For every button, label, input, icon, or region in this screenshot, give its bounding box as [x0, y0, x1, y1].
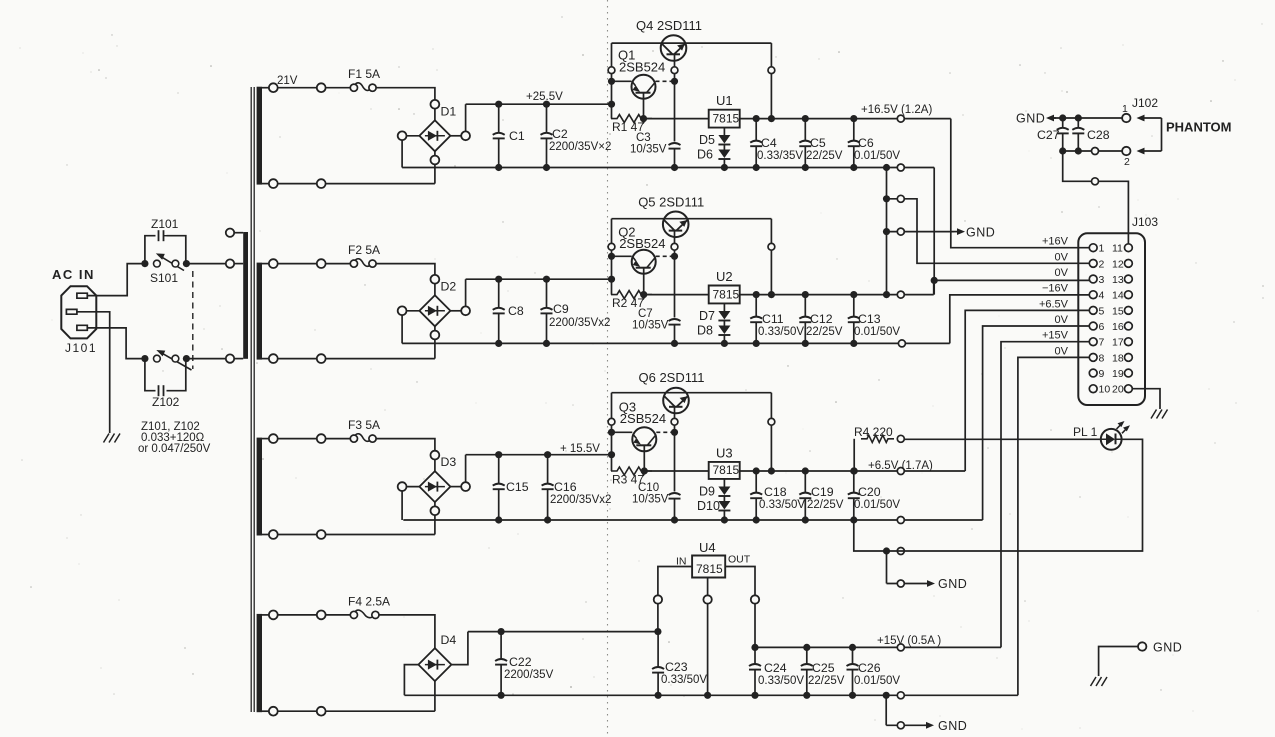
- Q6 base lead: [674, 406, 676, 432]
- wire bridge D4 AC bottom: [434, 681, 436, 711]
- J103 pin 7: [1089, 338, 1097, 346]
- channel4 ground rail: [404, 694, 1018, 696]
- svg-text:C28: C28: [1087, 128, 1110, 142]
- wire left to Q2: [612, 255, 632, 257]
- switch S101 upper pole right contact: [172, 260, 179, 267]
- junction diode ground ch1: [721, 164, 728, 171]
- transformer primary winding: [243, 232, 248, 359]
- capacitor C12: [804, 295, 806, 317]
- J103 pin 8: [1089, 353, 1097, 361]
- svg-text:U2: U2: [716, 269, 733, 284]
- svg-text:10: 10: [1099, 384, 1111, 396]
- capacitor C19: [804, 471, 806, 493]
- transformer primary tap terminal: [226, 229, 234, 237]
- terminal circle Q5 base: [671, 243, 678, 250]
- capacitor C3: [669, 148, 681, 150]
- wire D8 to ground rail: [723, 335, 725, 343]
- regulator U1 box: [709, 110, 740, 128]
- wire fuse F3 to bridge: [376, 439, 435, 456]
- wire R4 to PL1: [905, 438, 1101, 440]
- ch4 ground branch vertical: [885, 695, 887, 725]
- capacitor C25: [806, 647, 808, 664]
- ground at J103 pin20: [1151, 410, 1168, 419]
- wire ch3 ground to pin6: [983, 326, 1089, 520]
- terminal circles secondary top w2: [269, 259, 278, 268]
- svg-text:9: 9: [1099, 368, 1105, 380]
- wire J102 to J103 pin11: [1063, 151, 1129, 244]
- svg-text:7815: 7815: [713, 287, 740, 301]
- wire bridge D1 AC bottom: [434, 151, 436, 183]
- svg-text:C7: C7: [638, 308, 653, 320]
- wire rail to regulator U2: [646, 294, 709, 296]
- Q1 base lead down: [643, 93, 645, 119]
- svg-text:J102: J102: [1132, 96, 1158, 110]
- junction Q2 emitter node: [608, 253, 615, 260]
- svg-text:C10: C10: [638, 482, 659, 494]
- svg-text:D8: D8: [697, 324, 713, 338]
- svg-text:D5: D5: [699, 133, 715, 147]
- svg-text:2200/35V: 2200/35V: [504, 669, 554, 681]
- svg-text:Q6 2SD111: Q6 2SD111: [639, 370, 705, 385]
- svg-text:10/35V: 10/35V: [630, 144, 667, 156]
- svg-text:7815: 7815: [713, 463, 740, 477]
- svg-text:AC IN: AC IN: [52, 267, 95, 282]
- capacitor C5: [804, 119, 806, 141]
- wire fuse F4 to bridge: [379, 615, 435, 648]
- svg-text:U1: U1: [716, 93, 733, 108]
- right vertical Q4 emitter to output: [770, 43, 772, 119]
- 0V row GND arrow ch4: [886, 724, 924, 726]
- transistor Q1 (2SB524): [632, 75, 656, 99]
- terminal ch4 ground: [897, 692, 904, 699]
- right vertical Q5 emitter to output: [770, 219, 772, 295]
- J101 pin 1: [77, 293, 87, 298]
- svg-text:J101: J101: [65, 341, 97, 355]
- terminal PL1 return row: [897, 548, 904, 555]
- wire rail to regulator U3: [646, 470, 709, 472]
- svg-text:S101: S101: [150, 271, 178, 285]
- junction PL1 return: [883, 547, 890, 554]
- svg-text:17: 17: [1112, 337, 1124, 349]
- wire between diodes: [723, 496, 725, 501]
- fuse F4: [350, 611, 357, 618]
- wire +16.5V to J103 pin1: [951, 119, 1089, 248]
- J103 pin 6: [1089, 322, 1097, 330]
- capacitor C18: [755, 471, 757, 493]
- svg-text:C23: C23: [665, 660, 688, 674]
- junction Q3 emitter node: [608, 429, 615, 436]
- svg-text:2SB524: 2SB524: [620, 411, 666, 426]
- terminal +6.5V output: [897, 468, 904, 475]
- junction R2 right / base: [640, 291, 647, 298]
- svg-text:2200/35Vx2: 2200/35Vx2: [550, 494, 611, 506]
- ground at GND terminal: [1091, 677, 1108, 686]
- svg-text:U3: U3: [716, 445, 733, 460]
- svg-text:or 0.047/250V: or 0.047/250V: [138, 443, 211, 455]
- resistor R4: [853, 439, 855, 471]
- terminal ch3 ground: [897, 517, 904, 524]
- Q5 base lead: [674, 230, 676, 256]
- junction Q5 base node: [671, 253, 678, 260]
- svg-text:D7: D7: [699, 309, 715, 323]
- svg-text:+15V: +15V: [1042, 330, 1069, 342]
- J102 top row wire: [1049, 117, 1127, 119]
- ground at J101: [104, 434, 121, 443]
- svg-text:Z102: Z102: [152, 395, 180, 409]
- wire left to Q1: [612, 80, 632, 82]
- capacitor C24: [754, 647, 756, 664]
- svg-text:C15: C15: [506, 480, 529, 494]
- terminal ch2 0V: [897, 291, 904, 298]
- junction R3 right / base: [641, 467, 648, 474]
- wire U4 input: [658, 567, 692, 632]
- svg-text:0.01/50V: 0.01/50V: [854, 675, 900, 687]
- J103 pin 4: [1089, 291, 1097, 299]
- svg-text:F3 5A: F3 5A: [348, 418, 380, 432]
- dashed wire Q1 to Q4 base: [656, 80, 675, 82]
- svg-text:2200/35Vx2: 2200/35Vx2: [549, 317, 610, 329]
- svg-text:0V: 0V: [1055, 251, 1069, 263]
- diode D7: [718, 311, 730, 320]
- J101 pin 3: [77, 325, 87, 330]
- svg-text:C1: C1: [509, 129, 525, 143]
- terminal circle Q4 base: [671, 67, 678, 74]
- right vertical Q6 emitter to output: [770, 393, 772, 471]
- terminal R4 output: [897, 435, 904, 442]
- svg-text:0V: 0V: [1055, 345, 1069, 357]
- resistor R1: [611, 115, 652, 123]
- svg-text:C18: C18: [764, 485, 787, 499]
- svg-text:0.33/35V: 0.33/35V: [757, 150, 803, 162]
- diode D9: [718, 487, 730, 496]
- junction ch1 ground branch: [883, 164, 890, 171]
- wire collector rail Q6: [612, 392, 772, 394]
- wire collector rail Q4: [612, 42, 772, 44]
- svg-text:2200/35V×2: 2200/35V×2: [549, 141, 611, 153]
- svg-text:6: 6: [1099, 321, 1105, 333]
- channel3 plus rail +15.5V: [466, 454, 612, 456]
- transformer secondary winding W2: [257, 263, 262, 360]
- junction ch4 ground branch: [883, 692, 890, 699]
- resistor R3: [611, 467, 652, 475]
- svg-text:22/25V: 22/25V: [806, 326, 843, 338]
- svg-text:0.01/50V: 0.01/50V: [854, 150, 900, 162]
- wire Q5 base to capacitor: [674, 256, 676, 317]
- junction +rail tie ch1: [608, 101, 615, 108]
- svg-text:10/35V: 10/35V: [632, 320, 669, 332]
- terminal +16.5V output: [897, 115, 904, 122]
- wire +6.5V to J103 pin5: [965, 310, 1089, 471]
- J103 pin 9: [1089, 369, 1097, 377]
- svg-text:18: 18: [1112, 352, 1124, 364]
- svg-text:7815: 7815: [696, 562, 723, 576]
- svg-text:22/25V: 22/25V: [808, 675, 845, 687]
- terminal circle left ch3: [608, 418, 615, 425]
- fuse F1: [350, 84, 357, 91]
- svg-text:3: 3: [1099, 274, 1105, 286]
- channel4 plus rail: [468, 631, 658, 633]
- PHANTOM bracket: [1161, 118, 1163, 151]
- PL1 light arrows: [1117, 423, 1123, 429]
- transistor Q3 (2SB524): [632, 427, 656, 451]
- transformer primary top terminal: [226, 259, 234, 267]
- svg-text:+ 15.5V: + 15.5V: [560, 443, 600, 455]
- svg-text:0.33/50V: 0.33/50V: [758, 675, 804, 687]
- svg-text:2SB524: 2SB524: [619, 59, 665, 74]
- svg-text:C12: C12: [810, 312, 833, 326]
- switch S101 lower blade: [160, 352, 192, 370]
- capacitor C4: [755, 119, 757, 141]
- wire fuse F2 to bridge: [376, 264, 435, 280]
- svg-text:D6: D6: [697, 148, 713, 162]
- junction diode ground ch2: [721, 340, 728, 347]
- wire U2 ground pin: [723, 303, 725, 311]
- wire +15V to J103 pin7: [1001, 342, 1089, 648]
- capacitor C20: [853, 471, 855, 493]
- wire bridge D1 minus to ground rail: [402, 135, 419, 137]
- terminal ch1 ground: [897, 164, 904, 171]
- capacitor C23: [657, 632, 659, 668]
- wire bridge D2 minus to ground rail: [402, 310, 419, 312]
- bridge rectifier D3: [419, 471, 450, 502]
- junction C7 ground: [671, 340, 678, 347]
- wire bridge D3 minus to ground rail: [402, 486, 419, 488]
- wire winding bottom w4: [269, 710, 435, 712]
- J102 bottom row wire: [1063, 150, 1127, 152]
- wire J101 pin1 to S101 upper pole: [87, 264, 145, 296]
- bridge rectifier D1: [419, 120, 450, 151]
- bridge D2 terminals: [431, 275, 440, 284]
- svg-text:1: 1: [1099, 243, 1105, 255]
- svg-text:+16V: +16V: [1042, 236, 1069, 248]
- wire collector rail Q5: [612, 218, 772, 220]
- svg-text:7: 7: [1099, 337, 1105, 349]
- capacitor C1: [498, 104, 500, 133]
- wire left to Q3: [612, 431, 633, 433]
- +25.5V rail: [466, 103, 612, 105]
- svg-text:7815: 7815: [713, 112, 740, 126]
- svg-text:C6: C6: [858, 136, 874, 150]
- svg-text:12: 12: [1112, 258, 1124, 270]
- left vertical wire (emitter feed) ch3: [611, 393, 613, 471]
- svg-text:GND: GND: [1016, 112, 1045, 126]
- svg-text:D1: D1: [441, 104, 457, 118]
- left vertical wire (emitter feed) ch2: [611, 219, 613, 295]
- Q3 base lead down: [643, 445, 645, 471]
- switch S101 upper blade: [159, 255, 184, 270]
- capacitor C2: [546, 104, 548, 133]
- capacitor C10: [669, 498, 681, 500]
- wire ch2 0V rail up to pin3 node: [933, 280, 935, 294]
- svg-text:C25: C25: [812, 661, 835, 675]
- svg-text:D2: D2: [441, 279, 457, 293]
- bridge rectifier D2: [419, 295, 450, 326]
- svg-text:D9: D9: [699, 485, 715, 499]
- svg-text:0.01/50V: 0.01/50V: [854, 326, 900, 338]
- svg-text:C27: C27: [1037, 128, 1060, 142]
- svg-text:Z101: Z101: [151, 217, 179, 231]
- svg-text:4: 4: [1099, 290, 1105, 302]
- wire Q6 base to capacitor: [674, 432, 676, 491]
- svg-text:8: 8: [1099, 352, 1105, 364]
- switch S101 lower pole left contact: [141, 355, 148, 362]
- regulator U4 box: [692, 556, 725, 578]
- U1 output rail +16.5V: [740, 118, 951, 120]
- wire winding bottom w2: [269, 358, 435, 360]
- svg-text:1: 1: [1122, 103, 1128, 115]
- junction ch2 0V tie: [883, 291, 890, 298]
- fuse F2: [350, 260, 357, 267]
- 0V row to pin2: [883, 195, 890, 202]
- GND terminal bottom right: [1138, 642, 1146, 650]
- wire winding to fuse F2: [269, 263, 350, 265]
- junction R1 right / base: [640, 115, 647, 122]
- wire S101 lower to transformer primary: [186, 358, 230, 360]
- wire bridge D2 AC bottom: [434, 326, 436, 358]
- capacitor C13: [853, 295, 855, 317]
- GND arrow at J102: [1053, 117, 1056, 119]
- connector J102 pin 2: [1122, 147, 1130, 155]
- wire -16V to J103 pin4: [950, 295, 1089, 344]
- switch S101 upper pole left contact: [141, 260, 148, 267]
- svg-text:0V: 0V: [1055, 314, 1069, 326]
- svg-text:PHANTOM: PHANTOM: [1166, 120, 1231, 135]
- svg-text:C5: C5: [810, 136, 826, 150]
- junction Q4 base node: [671, 78, 678, 85]
- svg-text:C3: C3: [636, 132, 651, 144]
- svg-text:C20: C20: [858, 485, 881, 499]
- svg-text:D4: D4: [441, 633, 457, 647]
- wire U3 ground pin: [723, 479, 725, 487]
- diode D10: [718, 501, 730, 510]
- fuse F3: [350, 435, 357, 442]
- J103 pin 3: [1089, 275, 1097, 283]
- wire ch4 ground to pin8: [1018, 357, 1089, 695]
- switch S101 lower pole right contact: [172, 355, 179, 362]
- terminal circle left ch2: [608, 243, 615, 250]
- svg-text:OUT: OUT: [728, 554, 751, 566]
- wire winding to fuse F4: [269, 614, 350, 616]
- pin3 0V tap: [931, 277, 938, 284]
- channel3 ground rail: [403, 519, 982, 521]
- J103 pin 10: [1089, 385, 1097, 393]
- transistor Q2 (2SB524): [632, 250, 656, 274]
- Q4 base lead: [674, 54, 676, 82]
- junction C10 ground: [671, 516, 678, 523]
- svg-text:J103: J103: [1132, 215, 1158, 229]
- transistor Q5 (2SD111): [663, 212, 689, 238]
- regulator U3 box: [709, 462, 740, 479]
- svg-text:−16V: −16V: [1042, 283, 1069, 295]
- resistor R2: [611, 291, 652, 299]
- svg-text:C13: C13: [858, 312, 881, 326]
- svg-text:GND: GND: [966, 226, 995, 240]
- transformer secondary winding W3: [257, 438, 262, 536]
- bridge rectifier D4: [418, 648, 451, 681]
- U2 output rail 0V: [740, 294, 934, 296]
- 0V row GND arrow ch1: [883, 228, 890, 235]
- wire fuse F1 to bridge: [376, 88, 435, 105]
- wire ch1 ground to pin3 vertical: [933, 168, 935, 295]
- wire between diodes: [723, 321, 725, 326]
- terminal circle Q6 base: [671, 418, 678, 425]
- wire J101 pin2 to ground: [77, 312, 110, 433]
- svg-text:C4: C4: [761, 136, 777, 150]
- svg-text:2: 2: [1099, 258, 1105, 270]
- terminal +15V output: [897, 644, 904, 651]
- svg-text:21V: 21V: [277, 75, 298, 87]
- svg-text:22/25V: 22/25V: [807, 499, 844, 511]
- channel2 ground rail: [402, 342, 950, 344]
- capacitor C16: [547, 455, 549, 484]
- svg-text:C2: C2: [552, 127, 568, 141]
- wire bridge D2 plus to rail: [450, 310, 465, 312]
- fold crease line: [607, 0, 609, 737]
- junction +rail tie ch2: [608, 276, 615, 283]
- transformer secondary winding W1: [257, 87, 262, 185]
- wire winding bottom w3: [269, 534, 435, 536]
- junction C3 ground: [671, 164, 678, 171]
- terminal circles secondary top w1: [269, 83, 278, 92]
- wire winding bottom w1: [269, 183, 435, 185]
- svg-text:2SB524: 2SB524: [619, 236, 665, 251]
- left vertical wire (emitter feed) ch1: [611, 43, 613, 119]
- capacitor C15: [498, 455, 500, 484]
- diode D5: [718, 135, 730, 144]
- J103 pin 5: [1089, 306, 1097, 314]
- svg-text:2: 2: [1124, 156, 1130, 168]
- terminal circle left ch1: [608, 67, 615, 74]
- wire between diodes: [723, 145, 725, 150]
- wire J103 pin20 to ground: [1132, 389, 1160, 409]
- svg-text:C24: C24: [764, 661, 787, 675]
- svg-text:C8: C8: [508, 304, 524, 318]
- svg-text:5: 5: [1099, 305, 1105, 317]
- svg-text:10/35V: 10/35V: [632, 494, 669, 506]
- junction Q1 emitter node: [608, 78, 615, 85]
- dashed wire Q3 to Q6 base: [656, 431, 674, 433]
- wire winding to fuse F3: [269, 438, 350, 440]
- transformer secondary winding W4: [257, 614, 262, 712]
- capacitor C11: [755, 295, 757, 317]
- capacitor C28: [1075, 114, 1082, 121]
- diode D6: [718, 150, 730, 159]
- capacitor C9: [546, 279, 548, 308]
- svg-text:0V: 0V: [1055, 267, 1069, 279]
- terminal circles secondary top w4: [269, 611, 278, 620]
- svg-text:D10: D10: [697, 499, 720, 513]
- svg-text:C9: C9: [553, 302, 569, 316]
- svg-text:13: 13: [1112, 274, 1124, 286]
- svg-text:C26: C26: [858, 661, 881, 675]
- svg-text:C22: C22: [509, 655, 532, 669]
- J101 pin 2: [66, 309, 77, 314]
- svg-text:+6.5V: +6.5V: [1039, 298, 1069, 310]
- ch3 ground branch: [854, 520, 887, 551]
- junction Q6 base node: [671, 429, 678, 436]
- wire S101 upper to transformer primary: [186, 263, 230, 265]
- svg-text:20: 20: [1112, 384, 1124, 396]
- connector J101 AC inlet body: [61, 286, 96, 338]
- ground branch vertical x886: [886, 168, 888, 295]
- svg-text:+16.5V (1.2A): +16.5V (1.2A): [861, 104, 932, 116]
- wire PL1 return: [887, 439, 1143, 551]
- wire U1 ground pin: [723, 128, 725, 135]
- capacitor Z101: [145, 236, 156, 264]
- svg-text:PL 1: PL 1: [1073, 425, 1098, 439]
- transistor Q4 (2SD111): [661, 35, 687, 61]
- svg-text:C19: C19: [811, 485, 834, 499]
